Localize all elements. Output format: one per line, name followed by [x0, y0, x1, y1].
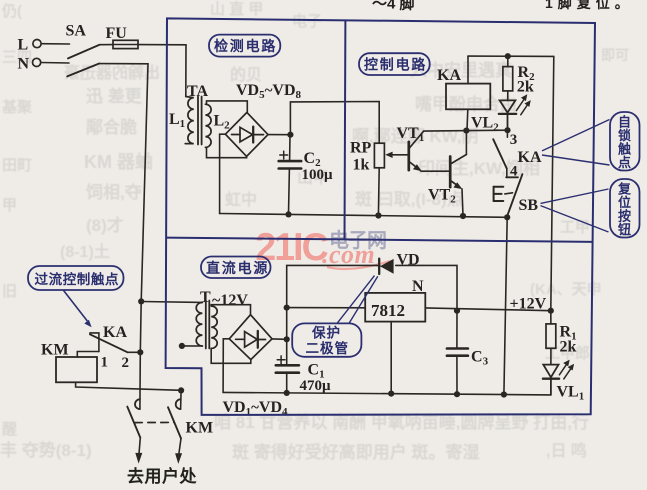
pushbutton SB actuator E — [494, 187, 513, 201]
pointer lines to KA — [542, 120, 610, 151]
svg-text:RP: RP — [350, 140, 372, 157]
svg-text:丰 夺势(8-1): 丰 夺势(8-1) — [0, 440, 92, 460]
junction SB bottom — [504, 214, 510, 220]
transformer T primary winding — [196, 302, 202, 346]
wire L2 bottom to bridge — [207, 147, 247, 158]
main contact jaw left (N) — [135, 399, 140, 409]
divider horizontal — [166, 238, 593, 242]
output wire right with arrow — [179, 438, 181, 454]
junction VD/C3 node — [454, 308, 460, 314]
junction R2 top — [505, 53, 511, 59]
wire KM coil top — [77, 352, 99, 358]
svg-text:SA: SA — [66, 23, 87, 40]
svg-text:~12V: ~12V — [212, 292, 248, 309]
wire bridge plus output — [272, 338, 287, 340]
svg-text:VD5~VD8: VD5~VD8 — [236, 82, 302, 101]
transformer TA core — [197, 97, 199, 145]
resistor R2 — [507, 56, 509, 66]
svg-text:检测电路: 检测电路 — [214, 38, 277, 54]
bridge rectifier VD5~VD8 — [225, 112, 268, 156]
svg-text:L: L — [18, 37, 29, 54]
+12V right rail down — [551, 56, 554, 310]
svg-text:迅 差更: 迅 差更 — [86, 86, 143, 106]
svg-text:KM: KM — [186, 420, 214, 437]
pointer lines to VD — [337, 276, 375, 324]
C2 plus sign — [280, 151, 288, 159]
wire VT2 collector up — [465, 130, 467, 154]
wire bridge minus to dc ground — [223, 339, 229, 393]
svg-text:7812: 7812 — [371, 301, 405, 320]
svg-text:1: 1 — [101, 355, 109, 371]
dc ground rail — [223, 392, 551, 395]
wire VT2 emitter down to rail — [462, 189, 463, 216]
svg-text:N: N — [412, 278, 424, 295]
VL1 light arrows — [559, 360, 574, 379]
RP wiper arrow — [390, 154, 409, 156]
contact KA pin3 tick — [506, 130, 508, 137]
svg-text:KA: KA — [103, 324, 127, 341]
mechanical link dashes — [135, 421, 174, 423]
svg-text:(8-1)土: (8-1)土 — [60, 242, 110, 261]
wire L rail to main contact — [180, 390, 183, 409]
node wire VL2/VT collectors — [424, 129, 508, 132]
ground rail of detection/control section — [220, 214, 508, 218]
svg-text:+12V: +12V — [510, 296, 547, 313]
svg-text:〜4 脚: 〜4 脚 — [372, 0, 415, 13]
svg-text:过流控制触点: 过流控制触点 — [35, 271, 120, 287]
svg-text:工甲: 工甲 — [560, 219, 590, 236]
svg-text:470μ: 470μ — [300, 378, 332, 394]
wire FU to L rail corner — [138, 45, 186, 97]
wire relay bottom — [466, 109, 469, 130]
svg-text:KM: KM — [41, 342, 69, 359]
junction KA contact wire on N rail — [137, 349, 143, 355]
svg-text:1脚复位。: 1脚复位。 — [545, 0, 634, 11]
transformer T core — [205, 301, 207, 349]
svg-text:2: 2 — [122, 355, 130, 371]
wire SA to FU — [100, 44, 114, 46]
svg-text:点: 点 — [618, 155, 631, 170]
callout 检测电路 — [209, 35, 280, 57]
relay coil KA box — [446, 84, 490, 110]
svg-text:基聚: 基聚 — [1, 98, 33, 116]
svg-text:饲相,夺: 饲相,夺 — [85, 182, 143, 202]
wire KM coil bottom to L rail — [76, 382, 182, 390]
junction C3 ground — [454, 391, 460, 397]
main contact blade right — [168, 407, 181, 438]
junction T primary bottom on L rail — [179, 343, 185, 349]
callout 过流控制触点 — [28, 266, 124, 327]
svg-text:VD: VD — [397, 252, 420, 269]
svg-text:直流电源: 直流电源 — [206, 260, 269, 276]
svg-text:甲: 甲 — [2, 197, 17, 214]
transformer T secondary winding — [211, 306, 217, 348]
junction RP-rail — [375, 212, 381, 218]
contact KA blade (self-hold) — [493, 139, 507, 168]
junction VT collectors node — [463, 128, 469, 134]
transformer TA winding L1 — [185, 97, 194, 144]
junction +12V node — [548, 308, 554, 314]
junction VT2 emitter rail — [460, 213, 466, 219]
svg-text:斑 寄得好受好高即用户 斑。寄湿: 斑 寄得好受好高即用户 斑。寄湿 — [232, 442, 479, 462]
main contact jaw right (L) — [176, 399, 181, 409]
junction KM coil bottom on L rail — [178, 387, 184, 393]
wire T secondary bottom to bridge — [211, 348, 251, 363]
LED VL1 — [543, 365, 559, 395]
wire protection loop — [287, 265, 377, 307]
contact KA fixed tick pin1 — [90, 333, 99, 352]
junction VL2 cathode node — [504, 127, 510, 133]
svg-text:1k: 1k — [353, 157, 370, 174]
wire 7812 ground pin — [390, 322, 392, 394]
wire relay top — [467, 56, 469, 83]
svg-text:钮: 钮 — [617, 222, 631, 237]
node bridge+ — [287, 132, 293, 138]
terminal L — [33, 40, 41, 48]
red 21IC.com watermark — [255, 225, 390, 269]
C1 plus sign — [277, 356, 285, 364]
svg-text:田町: 田町 — [2, 157, 32, 174]
regulator 7812 box N — [365, 293, 425, 322]
wire T secondary top to bridge — [211, 305, 250, 315]
frame outline — [166, 18, 595, 415]
junction C2 bottom — [285, 211, 291, 217]
wire SB chain down to dc ground — [504, 217, 507, 394]
pointer arrow to KA contact — [64, 290, 88, 321]
svg-text:仍(: 仍( — [1, 2, 22, 20]
wire detection output to RP — [290, 102, 379, 144]
wire VT1 emitter to VT2 base — [421, 170, 450, 172]
capacitor C1 — [276, 364, 299, 367]
wire 7812 input — [287, 307, 366, 309]
svg-text:即可: 即可 — [601, 47, 629, 63]
wire bridge + output — [268, 134, 290, 136]
LED VL2 — [499, 100, 516, 130]
VL2 light arrows — [516, 94, 530, 115]
wire N terminal to switch — [41, 62, 69, 65]
control top rail — [468, 55, 554, 57]
callout 控制电路 — [359, 53, 430, 75]
junction 7812 ground — [388, 391, 394, 397]
transistor VT2 — [450, 155, 466, 190]
svg-text:KA: KA — [437, 67, 461, 84]
svg-text:100μ: 100μ — [302, 167, 334, 183]
svg-text:醒: 醒 — [2, 421, 17, 438]
svg-text:控制电路: 控制电路 — [364, 57, 427, 73]
junction T primary top on N rail — [138, 298, 144, 304]
callout 直流电源 — [201, 257, 271, 279]
relay coil KM box — [56, 357, 97, 382]
junction SB chain ground — [501, 391, 507, 397]
wire L terminal to switch — [41, 43, 69, 45]
main contact blade left — [127, 407, 140, 438]
svg-text:保护: 保护 — [311, 325, 341, 341]
transistor VT1 — [409, 131, 424, 171]
wire N rail lower — [140, 301, 141, 409]
wire bridge minus down — [220, 134, 226, 213]
junction bridge plus — [284, 336, 290, 342]
pushbutton SB blade — [507, 174, 522, 216]
switch SA pole L (blade) — [68, 45, 100, 59]
bridge VD5~VD8 inner diode — [232, 127, 264, 143]
junction 7812 input node — [284, 305, 290, 311]
transformer TA winding L2 — [205, 104, 211, 147]
svg-text:3: 3 — [510, 132, 518, 148]
callout 自锁触点 (vertical) — [542, 112, 640, 171]
wire blade to N rail — [127, 351, 140, 353]
capacitor C2 — [289, 135, 291, 161]
svg-text:N: N — [18, 56, 30, 73]
svg-text:KA: KA — [518, 149, 542, 166]
terminal N — [33, 58, 41, 66]
svg-text:,日 鸣: ,日 鸣 — [546, 441, 587, 460]
svg-text:虹中: 虹中 — [225, 190, 257, 209]
switch SA pole N (blade) — [67, 64, 99, 77]
wire dc input node vertical — [286, 308, 288, 366]
wire RP bottom to rail — [377, 168, 380, 216]
svg-text:去用户处: 去用户处 — [127, 466, 197, 486]
wire T primary top — [141, 301, 202, 304]
bridge VD1~VD4 inner diode — [236, 331, 266, 348]
callout 保护二极管 — [292, 276, 378, 357]
callout 复位按钮 (vertical) — [541, 179, 640, 238]
svg-text:旧: 旧 — [2, 283, 17, 300]
svg-text:(8)才: (8)才 — [86, 215, 124, 235]
svg-text:2k: 2k — [560, 339, 577, 356]
divider vertical — [344, 20, 347, 239]
junction C1 ground — [284, 390, 290, 396]
svg-text:二极管: 二极管 — [306, 340, 350, 356]
svg-text:FU: FU — [106, 25, 128, 42]
wire T primary bottom — [182, 345, 203, 347]
svg-text:2k: 2k — [517, 79, 534, 96]
wire N rail (down left side) — [99, 64, 148, 302]
svg-text:KM 器蛐: KM 器蛐 — [84, 151, 153, 172]
svg-text:SB: SB — [519, 197, 539, 214]
pointer lines to SB — [541, 189, 609, 203]
wire 7812 output to +12V — [425, 308, 551, 311]
svg-text:鄅合脆: 鄅合脆 — [86, 117, 137, 137]
potentiometer RP — [374, 143, 384, 168]
contact KA (overcurrent) blade — [90, 334, 127, 352]
output wire left with arrow — [139, 438, 140, 454]
resistor R1 — [550, 311, 552, 324]
protection diode VD — [377, 259, 394, 274]
bridge rectifier VD1~VD4 — [229, 315, 272, 360]
contact KA pin4 — [506, 169, 508, 178]
wire L2 top to bridge — [207, 101, 248, 113]
capacitor C3 — [456, 311, 458, 349]
fuse FU — [113, 40, 138, 48]
svg-text:山 直 甲: 山 直 甲 — [210, 0, 263, 18]
